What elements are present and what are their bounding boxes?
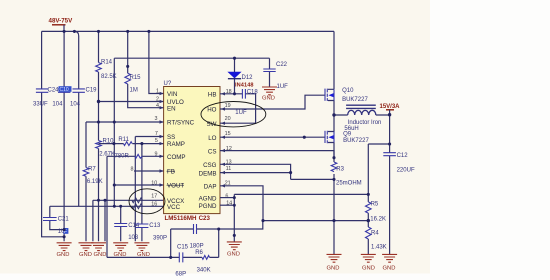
svg-text:R14: R14	[101, 60, 113, 66]
svg-text:68P: 68P	[175, 271, 186, 277]
svg-text:Q10: Q10	[342, 88, 354, 94]
svg-text:R3: R3	[336, 167, 344, 173]
svg-text:82.5K: 82.5K	[101, 74, 117, 80]
wire AGND/PGND merge column	[233, 194, 235, 242]
wire HB line with C18	[220, 94, 256, 123]
svg-text:GND: GND	[362, 266, 375, 272]
svg-text:R6: R6	[195, 250, 203, 256]
wire VCCX line	[93, 200, 164, 241]
wire VCC line	[50, 205, 164, 207]
annotation ellipse around VCCX/VCC	[129, 189, 165, 214]
svg-text:GND: GND	[114, 252, 127, 258]
capacitor C21 1UF	[43, 218, 57, 221]
wire comp left column to bus	[106, 156, 108, 257]
wire R3 bottom kelvin line	[291, 178, 334, 180]
annotation ellipse around HO/SW	[201, 102, 266, 127]
resistor 780R (horizontal on COMP line)	[135, 154, 142, 158]
svg-text:780R: 780R	[115, 154, 130, 160]
wire COMP line	[107, 155, 164, 157]
resistor R6 340K	[202, 255, 209, 259]
svg-text:4: 4	[156, 103, 159, 109]
wire left outer column	[42, 31, 65, 236]
svg-text:AGND: AGND	[199, 195, 217, 202]
svg-text:9: 9	[155, 151, 158, 157]
wire DEMB line	[220, 173, 291, 180]
svg-text:VCC: VCC	[167, 204, 181, 211]
svg-text:6.19K: 6.19K	[87, 179, 103, 185]
wire C21 column	[50, 206, 64, 229]
wire comp line with C23	[171, 221, 263, 229]
capacitor C18 1UF	[242, 89, 245, 99]
svg-text:GND: GND	[262, 95, 275, 101]
svg-text:R7: R7	[88, 167, 96, 173]
svg-text:C15: C15	[177, 245, 189, 251]
svg-text:COMP: COMP	[167, 154, 186, 161]
wire comp bus	[107, 229, 219, 257]
svg-text:CS: CS	[208, 148, 217, 155]
ground (AGND)	[227, 242, 242, 250]
wire R7 column	[85, 122, 87, 241]
wire VOUT line	[114, 184, 163, 186]
svg-text:1: 1	[156, 89, 159, 95]
power flag 48V-75V	[49, 18, 74, 32]
resistor R5 16.2K	[365, 202, 371, 213]
svg-text:16.2K: 16.2K	[370, 217, 386, 223]
svg-text:BUK7227: BUK7227	[343, 138, 369, 144]
svg-text:5: 5	[155, 138, 158, 144]
svg-text:56uH: 56uH	[344, 126, 358, 132]
capacitor C14 103	[114, 224, 127, 227]
capacitor C23 180P	[194, 224, 197, 234]
svg-text:R4: R4	[371, 231, 379, 237]
capacitor C13 390P	[135, 224, 148, 228]
wire LO line to Q9 gate	[220, 136, 325, 138]
wire x114 column	[113, 58, 115, 206]
svg-text:104: 104	[70, 102, 81, 108]
wire AGND pin	[220, 197, 234, 199]
svg-text:C10: C10	[60, 87, 69, 93]
svg-text:C13: C13	[149, 223, 161, 229]
wire C14 column	[120, 206, 122, 241]
svg-text:U?: U?	[164, 81, 172, 87]
wire CS line	[220, 151, 334, 158]
resistor R3 25mOHM	[333, 158, 335, 221]
svg-text:C22: C22	[276, 62, 288, 68]
wire VIN drop	[149, 31, 164, 93]
ground (R3 sense)	[327, 254, 342, 271]
svg-text:VOUT: VOUT	[167, 183, 184, 190]
svg-text:103: 103	[128, 235, 139, 241]
svg-text:25mOHM: 25mOHM	[336, 180, 362, 186]
wire R14/R10 column	[98, 31, 100, 241]
svg-text:FB: FB	[167, 169, 175, 176]
svg-text:8: 8	[131, 167, 134, 173]
ground (C13/SS)	[134, 243, 149, 258]
wire FB tap line	[263, 220, 369, 222]
svg-text:GND: GND	[57, 252, 70, 258]
pin arrows left side	[160, 92, 164, 187]
svg-text:LM5116MH: LM5116MH	[165, 215, 198, 222]
capacitor C?? 104 (highlighted label)	[58, 89, 70, 92]
svg-text:7: 7	[155, 131, 158, 137]
svg-text:C18: C18	[247, 89, 259, 95]
wire R3 bottom column	[333, 221, 335, 255]
wire divider branch	[368, 144, 389, 202]
svg-text:BUK7227: BUK7227	[342, 97, 368, 103]
wire C23 left drop	[170, 229, 172, 257]
svg-text:CSG: CSG	[203, 162, 217, 169]
wire DAP line	[220, 186, 263, 221]
ground (R7/RT)	[79, 243, 94, 258]
capacitor C12 220UF	[383, 153, 396, 156]
svg-text:RAMP: RAMP	[167, 141, 185, 148]
resistor R4 1.43K	[367, 213, 369, 254]
diode D12 IN4148	[234, 58, 236, 94]
svg-text:48V-75V: 48V-75V	[49, 18, 74, 25]
svg-text:390P: 390P	[153, 236, 167, 242]
ground (input caps)	[57, 243, 72, 258]
svg-text:220UF: 220UF	[397, 167, 415, 173]
svg-text:GND: GND	[327, 266, 340, 272]
ground (UVLO divider)	[91, 243, 106, 258]
svg-text:10: 10	[151, 180, 157, 186]
svg-text:15V/3A: 15V/3A	[380, 104, 401, 110]
wire R15 column	[128, 31, 164, 107]
svg-text:180P: 180P	[190, 244, 204, 250]
capacitor C19 104	[73, 89, 85, 92]
ground (C14)	[113, 243, 128, 258]
wire FB stub	[134, 170, 164, 172]
svg-text:340K: 340K	[197, 268, 211, 274]
svg-text:GND: GND	[383, 266, 396, 272]
wire curve from rail	[74, 31, 78, 206]
svg-text:DAP: DAP	[204, 184, 217, 191]
svg-text:C12: C12	[397, 153, 409, 159]
wire top rail	[42, 30, 334, 32]
wire boost line y58	[114, 57, 269, 59]
svg-text:HO: HO	[207, 107, 216, 114]
capacitor C24 33UF	[36, 89, 48, 92]
svg-text:IN4148: IN4148	[235, 82, 254, 88]
svg-text:PGND: PGND	[199, 203, 217, 210]
resistor R10 2.67K	[96, 141, 102, 149]
capacitor C22 1UF	[269, 58, 271, 87]
svg-text:VIN: VIN	[167, 91, 177, 98]
wire RAMP line with R11	[99, 143, 164, 145]
svg-text:RT/SYNC: RT/SYNC	[167, 120, 195, 127]
svg-text:C21: C21	[58, 216, 70, 222]
svg-text:19: 19	[225, 103, 231, 109]
wire long mid line	[234, 193, 368, 195]
wire CSG line	[220, 164, 291, 172]
svg-text:1.43K: 1.43K	[371, 245, 387, 251]
svg-text:GND: GND	[94, 252, 107, 258]
svg-text:104: 104	[52, 102, 63, 108]
svg-text:1M: 1M	[130, 88, 138, 94]
annotation squiggle on VCCX line	[132, 198, 143, 203]
wire PGND pin	[220, 204, 234, 206]
svg-text:R5: R5	[371, 202, 379, 208]
wire RT line	[86, 121, 164, 123]
svg-text:HB: HB	[208, 91, 217, 98]
resistor R14 82.5K	[96, 63, 102, 73]
svg-text:C19: C19	[86, 88, 98, 94]
svg-text:1UF: 1UF	[277, 84, 289, 90]
svg-text:C24: C24	[48, 88, 60, 94]
transistor Q9 BUK7227	[325, 131, 369, 158]
resistor R15 1M	[125, 73, 131, 84]
ground (R4 divider)	[361, 254, 376, 271]
svg-text:GND: GND	[137, 252, 150, 258]
wire SS line	[135, 137, 163, 242]
ground (C12 output)	[382, 254, 397, 271]
svg-text:2.67K: 2.67K	[99, 152, 115, 158]
resistor R7 6.19K	[83, 168, 89, 177]
wire column2 (104 cap)	[63, 31, 65, 241]
svg-text:Q9: Q9	[343, 131, 352, 137]
svg-text:D12: D12	[242, 75, 254, 81]
svg-text:GND: GND	[79, 252, 92, 258]
svg-text:11: 11	[226, 166, 232, 172]
svg-text:C23: C23	[199, 215, 211, 222]
svg-text:R15: R15	[130, 75, 142, 81]
svg-text:17: 17	[151, 193, 157, 199]
svg-text:1UF: 1UF	[235, 110, 247, 116]
wire UVLO line	[99, 101, 164, 103]
wire HO line to Q10 gate	[220, 95, 325, 109]
wire output column	[389, 115, 391, 255]
svg-text:20: 20	[225, 116, 231, 122]
svg-text:EN: EN	[167, 105, 176, 112]
svg-text:SS: SS	[167, 134, 175, 141]
svg-text:16: 16	[151, 202, 157, 208]
svg-text:LO: LO	[208, 135, 216, 142]
annotation squiggle on VCC line	[132, 204, 143, 209]
svg-text:6: 6	[225, 193, 228, 199]
pin arrows right side	[221, 92, 225, 187]
svg-text:33UF: 33UF	[33, 102, 48, 108]
ground (C22)	[262, 87, 277, 95]
inductor Iron 56uH	[334, 114, 390, 116]
resistor R11 (horizontal on RAMP line)	[124, 142, 133, 146]
svg-text:2: 2	[156, 97, 159, 103]
wire C13 column	[141, 144, 143, 242]
transistor Q10 BUK7227	[325, 31, 368, 131]
svg-text:DEMB: DEMB	[199, 170, 217, 177]
capacitor C15 68P	[179, 252, 183, 262]
svg-text:R11: R11	[118, 137, 129, 143]
svg-text:15: 15	[225, 131, 231, 137]
svg-text:3: 3	[155, 116, 158, 122]
IC U? LM5116MH	[164, 81, 221, 222]
svg-text:GND: GND	[227, 252, 240, 258]
